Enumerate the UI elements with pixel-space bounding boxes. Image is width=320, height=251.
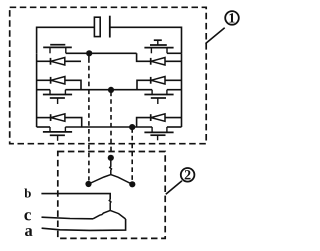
transistor VT1 (upper left) <box>43 45 72 54</box>
node: phase U tap <box>86 50 92 56</box>
wire: top DC bus <box>37 27 94 53</box>
leader line to callout 1 <box>206 28 225 44</box>
wire: right DC bus <box>181 53 183 127</box>
wire: terminal b lead <box>41 194 110 200</box>
node: phase W tap <box>129 124 135 130</box>
transistor VT4 (upper right) <box>144 40 173 53</box>
node: winding star 1 left terminal <box>85 181 91 187</box>
transistor VT6 (middle right) <box>144 90 173 104</box>
diode VD5 (lower left) <box>37 114 82 127</box>
diode VD6 (middle right) <box>137 77 182 90</box>
winding set 2 (wye) <box>93 200 126 220</box>
label b <box>24 189 30 198</box>
wire: left DC bus <box>36 53 38 127</box>
diode VD2 (lower right) <box>137 114 182 127</box>
transistor VT2 (lower right) <box>144 127 173 140</box>
wire: phase line U (row 1) <box>66 52 182 54</box>
diode VD1 (upper left) <box>37 58 81 66</box>
node: phase V tap <box>108 87 114 93</box>
wire: phase U drop <box>88 53 90 63</box>
wire: phase line V (row 2) <box>37 89 182 91</box>
callout 1 <box>225 11 239 25</box>
label a <box>25 228 32 236</box>
diode VD4 (upper right) <box>137 53 182 65</box>
capacitor C1 (polarized, rectangle plate) <box>94 16 109 38</box>
wire: phase V drop <box>110 90 112 96</box>
winding set 1 (wye) <box>89 160 133 184</box>
node: winding star 1 right terminal <box>129 181 135 187</box>
node: winding star 1 top terminal <box>108 155 114 161</box>
wire: top bus right of capacitor <box>110 27 182 53</box>
wire: phase W drop <box>131 127 133 133</box>
label c <box>24 212 31 220</box>
transistor VT5 (lower left) <box>43 127 72 141</box>
wire: phase line W (row 3) <box>37 126 182 128</box>
diode VD3 (middle left) <box>37 77 81 90</box>
inverter block box 1 (dashed) <box>10 7 207 143</box>
wire: terminal a lead <box>42 219 126 230</box>
callout 2 <box>181 168 195 182</box>
motor block box 2 (dashed) <box>58 152 165 239</box>
transistor VT3 (middle left) <box>43 90 72 104</box>
wire: terminal c lead <box>42 217 94 219</box>
leader line to callout 2 <box>166 181 182 194</box>
